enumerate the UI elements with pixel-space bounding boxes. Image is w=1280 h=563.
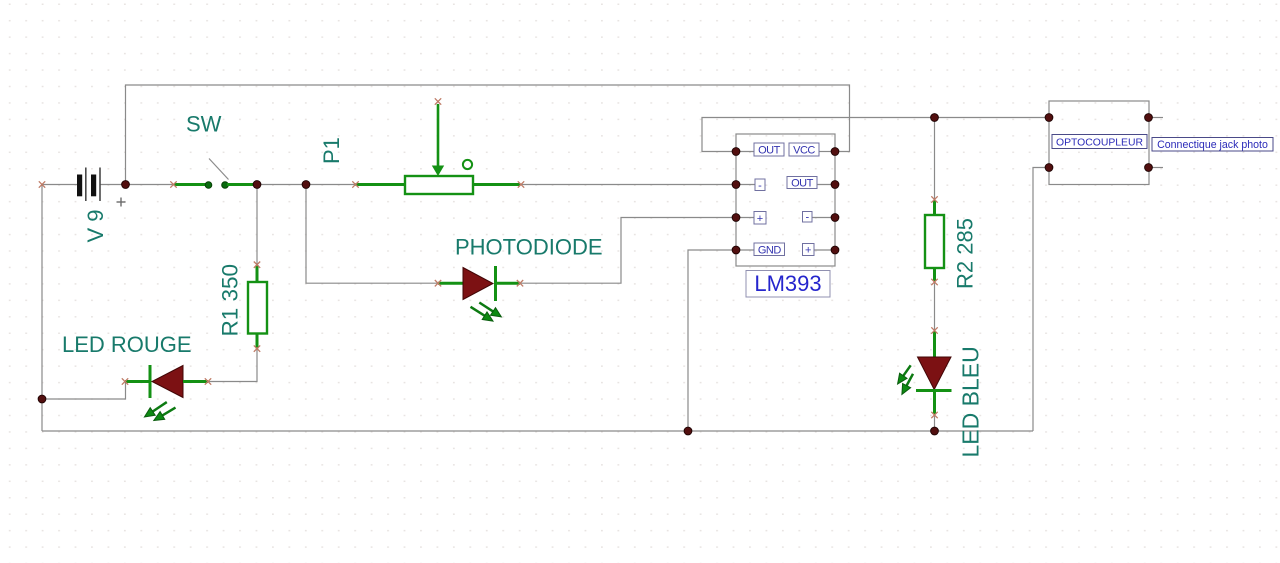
svg-text:OUT: OUT	[758, 145, 781, 157]
wire LED ROUGE cathode to left node	[42, 382, 126, 400]
wire node A down to R1 top	[256, 185, 258, 265]
wire node B down to photodiode anode	[306, 185, 438, 284]
wire battery right lead	[101, 184, 126, 186]
pin node optocoupler pin3	[1045, 164, 1053, 172]
battery V9	[77, 168, 126, 207]
svg-text:R1 350: R1 350	[218, 264, 243, 337]
pin label GND	[754, 243, 785, 256]
pin node optocoupler pin4	[1145, 164, 1153, 172]
wire optocoupler pin 2 stub	[1149, 117, 1164, 119]
pin label OUT left	[754, 143, 784, 157]
terminal x LED BLEU bottom	[931, 412, 937, 418]
wire left drop from battery terminal to bottom rail	[41, 185, 43, 432]
pin lead VCC pin8	[819, 151, 835, 153]
junction node A switch/R1	[253, 181, 261, 189]
junction node LED BLEU bottom	[931, 427, 939, 435]
pin node LM393 pin4	[732, 246, 740, 254]
pin lead plus pin5	[814, 249, 835, 251]
terminal x switch left	[170, 181, 176, 187]
wire LED BLEU bottom to bottom rail	[934, 415, 936, 431]
terminal x P1 wiper	[435, 98, 441, 104]
pin lead minus pin6	[812, 217, 835, 219]
pin node LM393 pin2	[732, 181, 740, 189]
wire right riser from bottom rail to optocoupler pin 3	[1033, 168, 1049, 432]
wire photodiode cathode to LM393 plus input	[520, 218, 736, 284]
pin label VCC	[789, 143, 819, 157]
svg-text:LED BLEU: LED BLEU	[958, 346, 984, 457]
terminal x LED BLEU top	[931, 327, 937, 333]
junction node B photodiode branch	[302, 181, 310, 189]
svg-text:VCC: VCC	[793, 145, 815, 157]
terminal x R2 bottom	[931, 279, 937, 285]
pin lead plus pin3	[736, 217, 754, 219]
junction node GND rail	[684, 427, 692, 435]
svg-text:LM393: LM393	[754, 271, 821, 296]
label LM393	[746, 271, 830, 298]
svg-text:Connectique jack photo: Connectique jack photo	[1157, 139, 1268, 151]
resistor R2 285	[925, 200, 944, 282]
LED ROUGE (red LED pointing left)	[125, 365, 208, 421]
terminal x R1 bottom	[254, 345, 260, 351]
wire switch node to node B	[257, 184, 306, 186]
wire R2 bottom to LED BLEU top	[934, 282, 936, 331]
wire LM393 OUT to vcc2 rail and optocoupler pin 1	[702, 118, 1049, 152]
pin label OUT right	[787, 177, 817, 190]
terminal x photodiode cathode	[517, 280, 523, 286]
wire bottom rail	[42, 430, 1033, 432]
terminal x P1 right	[518, 181, 524, 187]
svg-text:+: +	[805, 245, 811, 257]
pin node LM393 pin7	[831, 181, 839, 189]
pin lead GND pin4	[736, 249, 754, 251]
junction node R2 top	[931, 114, 939, 122]
wire LM393 GND to bottom rail	[688, 250, 736, 431]
wire battery node to switch terminal	[126, 184, 174, 186]
svg-text:R2 285: R2 285	[953, 218, 978, 289]
pin node optocoupler pin2	[1145, 114, 1153, 122]
svg-text:OPTOCOUPLEUR: OPTOCOUPLEUR	[1056, 137, 1143, 148]
pin lead OUT pin7	[817, 184, 835, 186]
svg-text:PHOTODIODE: PHOTODIODE	[455, 235, 603, 260]
terminal x battery left	[39, 181, 45, 187]
pin label minus left	[755, 179, 765, 192]
wire R2 top from rail node	[934, 118, 936, 200]
photodiode (LED symbol pointing right)	[438, 266, 520, 321]
label OPTOCOUPLEUR	[1052, 135, 1147, 149]
svg-text:+: +	[757, 213, 763, 225]
pin node LM393 pin6	[831, 214, 839, 222]
pin lead minus pin2	[736, 184, 755, 186]
svg-text:OUT: OUT	[791, 178, 814, 190]
svg-text:GND: GND	[758, 244, 782, 256]
label Connectique jack photo	[1152, 138, 1273, 152]
pin node optocoupler pin1	[1045, 114, 1053, 122]
wire battery left lead	[42, 184, 77, 186]
pin node LM393 pin1	[732, 148, 740, 156]
svg-text:SW: SW	[186, 112, 222, 137]
pin lead OUT pin1	[736, 151, 754, 153]
potentiometer P1	[356, 104, 521, 194]
junction node battery top	[122, 181, 130, 189]
terminal x P1 left	[352, 181, 358, 187]
svg-text:LED ROUGE: LED ROUGE	[62, 332, 192, 357]
junction node LED ROUGE left	[38, 395, 46, 403]
wire top rail from battery node to VCC riser	[126, 85, 850, 185]
switch SW	[174, 159, 257, 189]
LED BLEU (LED pointing down)	[898, 331, 952, 415]
terminal x photodiode anode	[435, 280, 441, 286]
terminal x R2 top	[931, 196, 937, 202]
wire R1 bottom to LED ROUGE anode	[208, 349, 257, 382]
terminal x R1 top	[254, 262, 260, 268]
svg-text:-: -	[805, 211, 809, 223]
svg-text:-: -	[758, 180, 762, 192]
optocoupler U2 body	[1049, 101, 1149, 185]
pin node LM393 pin8	[831, 148, 839, 156]
op-amp U1 LM393 body	[736, 134, 835, 266]
svg-text:V 9: V 9	[83, 209, 108, 242]
pin label plus left	[754, 212, 766, 226]
wire optocoupler pin 4 stub	[1149, 167, 1164, 169]
terminal x LED ROUGE anode	[205, 378, 211, 384]
pin label plus right	[803, 244, 815, 257]
terminal x LED ROUGE cathode	[122, 378, 128, 384]
wire node B to P1 left terminal	[306, 184, 355, 186]
wire P1 right terminal to LM393 minus input	[521, 184, 736, 186]
resistor R1 350	[248, 265, 267, 349]
pin node LM393 pin3	[732, 214, 740, 222]
svg-text:P1: P1	[319, 137, 344, 164]
pin node LM393 pin5	[831, 246, 839, 254]
pin label minus right	[803, 211, 813, 223]
